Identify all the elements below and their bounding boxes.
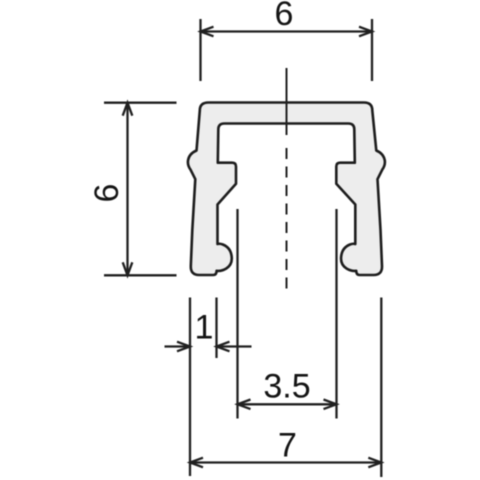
svg-text:3.5: 3.5 xyxy=(263,368,310,406)
dim 3.5 : dimension line xyxy=(238,403,337,405)
dim 7 : dimension line xyxy=(190,461,381,463)
dim 7 : arrow left xyxy=(190,458,203,468)
dim 7 : extension line right xyxy=(380,298,382,478)
dim 1 : arrow right xyxy=(217,342,230,352)
dim top 6 : arrow right xyxy=(359,27,372,37)
svg-text:6: 6 xyxy=(88,184,126,203)
svg-text:6: 6 xyxy=(275,0,294,33)
dim top 6 : dimension line xyxy=(201,30,373,32)
dim 3.5 : extension line left xyxy=(236,209,238,419)
svg-text:7: 7 xyxy=(278,427,297,465)
dim 3.5 : arrow left xyxy=(238,400,251,410)
dim 7 : arrow right xyxy=(368,458,381,468)
centerline xyxy=(286,68,288,135)
dim 1 : dimension line right tail xyxy=(217,345,252,347)
dim left 6 : dimension line xyxy=(126,103,128,276)
dim left 6 : extension line top xyxy=(104,102,177,104)
profile cross-section body xyxy=(188,103,385,276)
dim 3.5 : extension line right xyxy=(335,209,337,419)
dim top 6 : extension line left xyxy=(199,19,201,81)
dim left 6 : arrow top xyxy=(123,103,133,116)
dim 1 : extension line right xyxy=(215,298,217,359)
dim left 6 : arrow bottom xyxy=(123,262,133,275)
dim 1 : extension line left xyxy=(189,298,191,477)
dim 1 : dimension line left tail xyxy=(165,345,191,347)
svg-text:1: 1 xyxy=(195,309,214,347)
dim 3.5 : arrow right xyxy=(324,400,337,410)
dim left 6 : extension line bottom xyxy=(104,274,177,276)
dim top 6 : arrow left xyxy=(201,27,214,37)
dim 1 : arrow left xyxy=(177,342,190,352)
dim top 6 : extension line right xyxy=(371,19,373,81)
